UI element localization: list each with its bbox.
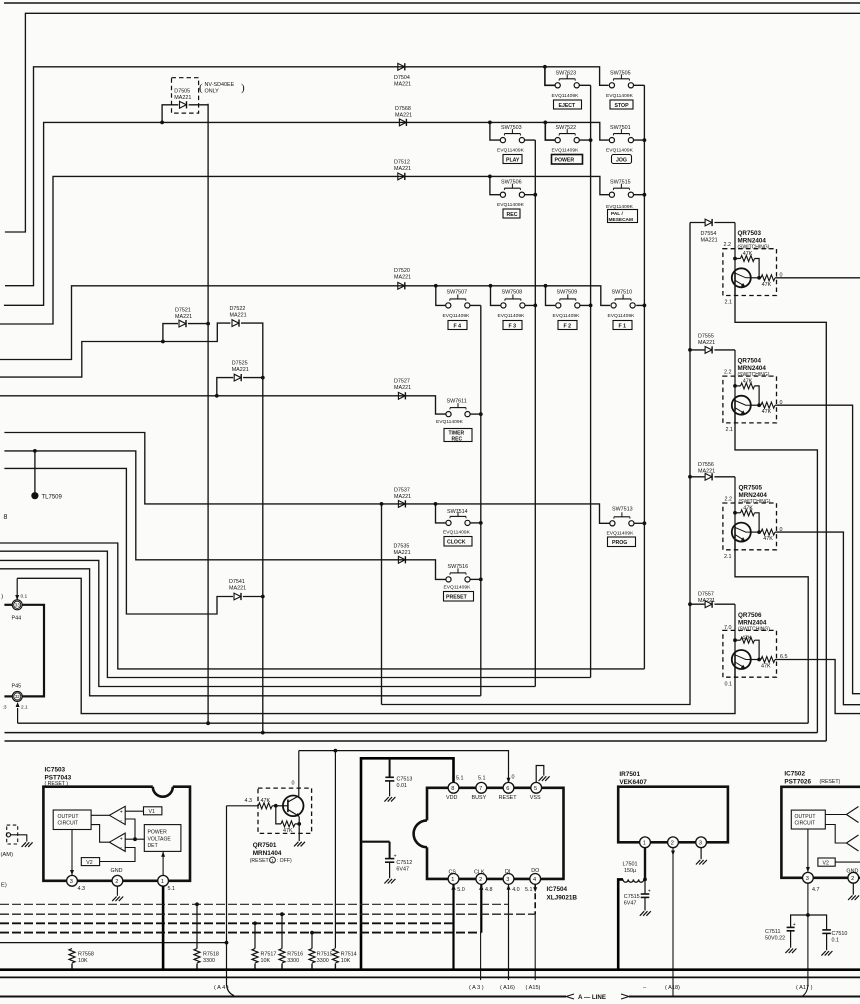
wire D7525 branch <box>217 378 233 396</box>
svg-text:MRN2404: MRN2404 <box>738 619 767 626</box>
switch SW7501 <box>609 129 633 143</box>
jack AM with ground <box>6 825 32 847</box>
switch SW7510 <box>611 294 635 308</box>
diode D7557 <box>705 601 712 608</box>
pin 2 CLK <box>476 874 487 885</box>
IC7504 body <box>414 788 564 879</box>
wire PLAY/POWER/JOG feed <box>4 122 609 305</box>
wire pin1 thick to bottom bus <box>162 886 165 970</box>
svg-text:MA221: MA221 <box>701 238 718 244</box>
svg-text:D7521: D7521 <box>175 308 191 314</box>
svg-text:1: 1 <box>451 877 454 883</box>
wire D7555 line <box>690 349 735 351</box>
svg-text:6: 6 <box>506 786 509 792</box>
svg-text:R7515: R7515 <box>317 952 333 958</box>
box POWER VOLTAGE DET <box>144 825 181 852</box>
svg-text:5.1: 5.1 <box>456 775 464 781</box>
wire CLOCK drop <box>436 504 447 523</box>
pin 5 VSS <box>531 782 542 793</box>
node C2 f3 <box>533 304 537 308</box>
svg-text:+: + <box>120 809 123 815</box>
diode D7504 <box>398 63 405 70</box>
pin 1 of IR7501 <box>640 837 651 848</box>
svg-text:5.1: 5.1 <box>478 775 486 781</box>
IC7502 body <box>781 787 860 878</box>
svg-text:EVQ11409K: EVQ11409K <box>606 147 634 153</box>
wire F3 drop <box>491 286 501 306</box>
node F3 drop <box>489 284 493 288</box>
pin P44 <box>4 578 44 696</box>
wire REC/PAL feed <box>0 176 609 324</box>
transistor QR7506 <box>723 604 777 677</box>
svg-text:4.3: 4.3 <box>245 798 253 804</box>
svg-text:7.0: 7.0 <box>724 625 732 631</box>
svg-text:GND: GND <box>846 868 858 874</box>
svg-text:3300: 3300 <box>287 958 299 964</box>
svg-text:SW7505: SW7505 <box>610 71 631 77</box>
svg-text:MA221: MA221 <box>175 314 192 320</box>
resistor R7517 <box>254 923 256 948</box>
switch SW7508 <box>501 294 525 308</box>
svg-text:3: 3 <box>506 877 509 883</box>
svg-text:4.3: 4.3 <box>78 886 86 892</box>
wire D7521 branch <box>163 324 178 342</box>
svg-text:2.2: 2.2 <box>724 242 732 248</box>
svg-text:REC: REC <box>507 212 518 218</box>
svg-text:2.1: 2.1 <box>21 705 28 711</box>
svg-text:2.2: 2.2 <box>724 370 732 376</box>
switch SW7611 <box>446 403 470 417</box>
svg-text:0: 0 <box>780 273 783 279</box>
svg-text:47K: 47K <box>261 798 271 804</box>
node D7521 left <box>161 340 165 344</box>
wire key line 1 from edge <box>0 543 644 669</box>
switch SW7503 <box>500 129 524 143</box>
svg-text:3300: 3300 <box>203 958 215 964</box>
svg-text:IR7501: IR7501 <box>619 771 640 778</box>
capacitor C7513 <box>384 758 395 801</box>
svg-text:( A 3 ): ( A 3 ) <box>469 985 484 991</box>
wire R7514 column <box>334 751 336 948</box>
node D7505 tap <box>160 121 164 125</box>
ground pin2 IC7502 <box>848 883 859 900</box>
capacitor C7511 <box>785 915 808 953</box>
svg-text:C7512: C7512 <box>396 860 412 866</box>
pin 1 CS <box>448 874 459 885</box>
pin 3 of IC7503 <box>67 875 78 886</box>
svg-text:D7568: D7568 <box>395 106 411 112</box>
svg-text:EVQ11409K: EVQ11409K <box>443 313 471 319</box>
svg-text:PROG: PROG <box>612 540 627 546</box>
svg-text:C7513: C7513 <box>397 777 413 783</box>
wire EJECT drop <box>545 67 555 86</box>
svg-text:4.0: 4.0 <box>512 887 520 893</box>
svg-text:5: 5 <box>534 786 537 792</box>
wire SW7516 right lead <box>470 578 481 580</box>
box V1 <box>144 807 162 815</box>
svg-text:V2: V2 <box>86 860 92 866</box>
ground pin2 <box>112 886 123 901</box>
svg-text:5.1: 5.1 <box>168 886 176 892</box>
svg-text:QR7506: QR7506 <box>738 612 762 619</box>
svg-text:V2: V2 <box>823 861 829 867</box>
pin 8 VDD <box>448 782 459 793</box>
svg-text:MA221: MA221 <box>394 275 411 281</box>
svg-text:EVQ11409K: EVQ11409K <box>497 202 525 208</box>
svg-text:D7555: D7555 <box>698 334 714 340</box>
svg-text:BUSY: BUSY <box>472 795 487 801</box>
svg-text:A — LINE: A — LINE <box>578 994 606 1001</box>
svg-text:QR7503: QR7503 <box>738 230 762 237</box>
svg-text:+: + <box>120 836 123 842</box>
box V2 of IC7502 <box>818 858 835 866</box>
svg-text:32: 32 <box>15 694 20 699</box>
diode D7520 <box>398 282 405 289</box>
svg-text:CIRCUIT: CIRCUIT <box>795 821 816 827</box>
svg-text:47K: 47K <box>743 378 753 384</box>
box V2 <box>81 858 99 866</box>
wire SW7611 right lead <box>470 413 481 415</box>
IC7503 body <box>43 787 190 881</box>
svg-text:SW7515: SW7515 <box>610 180 631 186</box>
wire D7541 net <box>4 468 233 614</box>
wire P44 net to QR7506 emitter <box>17 578 735 713</box>
svg-text:3: 3 <box>699 841 702 847</box>
svg-text:47K: 47K <box>762 409 772 415</box>
pin 3 of IR7501 <box>696 837 707 848</box>
svg-text:-: - <box>120 845 122 851</box>
node C4 pal <box>643 193 647 197</box>
node PLAY drop <box>488 121 492 125</box>
svg-text:2: 2 <box>479 877 482 883</box>
svg-text:D7525: D7525 <box>232 361 248 367</box>
wire QR7506 emitter route <box>734 667 736 714</box>
wire QR7504 emitter route <box>735 412 817 732</box>
svg-text:D7520: D7520 <box>394 268 410 274</box>
svg-text:EVQ11409K: EVQ11409K <box>552 93 580 99</box>
svg-text:4.7: 4.7 <box>812 887 820 893</box>
svg-text:7: 7 <box>479 786 482 792</box>
wire D7505 bypass <box>162 105 208 123</box>
svg-text:SW7611: SW7611 <box>447 399 467 405</box>
pin 1 of IC7503 <box>158 875 169 886</box>
wire bus to QR7503 emitter <box>5 740 827 742</box>
bus thick A-line upper <box>0 968 860 971</box>
svg-text:5.1: 5.1 <box>525 887 533 893</box>
svg-text:47K: 47K <box>283 828 293 834</box>
svg-text:D7557: D7557 <box>698 592 714 598</box>
svg-text:3: 3 <box>70 879 73 885</box>
svg-text:8: 8 <box>451 786 454 792</box>
switch SW7516 <box>446 568 470 582</box>
svg-text:SW7501: SW7501 <box>610 125 631 131</box>
bus dashed row CS <box>0 922 454 924</box>
svg-text:10K: 10K <box>261 958 271 964</box>
svg-text:GND: GND <box>111 868 123 874</box>
switch SW7513 <box>610 512 634 526</box>
svg-text:EVQ11409K: EVQ11409K <box>552 147 580 153</box>
wire QR7504 output route <box>777 405 860 694</box>
diode D7568 <box>399 119 406 126</box>
svg-text:F 2: F 2 <box>564 323 572 329</box>
diode D7525 <box>234 374 241 381</box>
svg-text:EVQ11409K: EVQ11409K <box>606 93 634 99</box>
svg-text:(RESET): (RESET) <box>820 779 841 785</box>
svg-text:MA221: MA221 <box>232 367 249 373</box>
svg-text:F 1: F 1 <box>619 323 627 329</box>
svg-text:2.2: 2.2 <box>725 496 733 502</box>
node F4 drop <box>434 284 438 288</box>
inductor L7501 <box>618 848 645 970</box>
bottom border with A-LINE gap <box>0 996 566 998</box>
svg-text:EVQ11409K: EVQ11409K <box>607 531 635 537</box>
svg-text:(SWITCHING): (SWITCHING) <box>738 372 770 378</box>
svg-text:OUTPUT: OUTPUT <box>58 814 79 820</box>
wire D7522 net from edge <box>0 323 230 377</box>
wire CLOCK feed <box>4 433 609 524</box>
svg-text:MA221: MA221 <box>394 385 411 391</box>
wire switch right leads row1 <box>579 84 644 86</box>
svg-text:+: + <box>648 888 651 894</box>
diode D7556 <box>705 473 712 480</box>
wire DI column <box>507 884 511 980</box>
wire switch right leads row2 <box>525 139 645 141</box>
wire REC drop <box>490 176 500 194</box>
svg-text:D7504: D7504 <box>394 75 410 81</box>
node column 262 on bus <box>261 731 265 735</box>
svg-text:V1: V1 <box>149 809 155 815</box>
box OUTPUT CIRCUIT <box>53 810 91 830</box>
svg-text:EVQ11409K: EVQ11409K <box>443 530 471 536</box>
svg-text:F 3: F 3 <box>509 323 517 329</box>
svg-text:( A16): ( A16) <box>500 985 515 991</box>
svg-text:5.0: 5.0 <box>457 887 465 893</box>
bus line below <box>0 976 860 978</box>
svg-text:SW7506: SW7506 <box>501 180 522 186</box>
node C4 f1 <box>643 304 647 308</box>
svg-text:MA221: MA221 <box>230 313 247 319</box>
wire DI row solid to A4 <box>0 942 227 944</box>
wire TL7509 branch <box>34 451 36 493</box>
svg-text:L7501: L7501 <box>623 862 638 868</box>
svg-text:1: 1 <box>161 879 164 885</box>
pin 3 of IC7502 <box>803 872 814 883</box>
wire column C1 <box>480 305 482 695</box>
wire VSS ground loop <box>536 766 549 783</box>
svg-text::3: :3 <box>3 705 7 711</box>
svg-text:POWER: POWER <box>148 830 168 836</box>
svg-text:EVQ11409K: EVQ11409K <box>608 313 636 319</box>
svg-text:R7558: R7558 <box>78 952 94 958</box>
wire D7541 cathode <box>243 596 263 598</box>
svg-text:8: 8 <box>4 514 8 521</box>
wire key line 2 from edge <box>0 551 591 677</box>
wire PLAY drop <box>490 122 500 140</box>
svg-text:D7541: D7541 <box>229 579 245 585</box>
wire F4 drop <box>436 286 446 306</box>
wire PRESET feed <box>4 451 446 580</box>
resistor R7558 <box>69 949 75 964</box>
wire QR7503 emitter route <box>735 285 826 741</box>
svg-text:EVQ11409K: EVQ11409K <box>497 147 525 153</box>
ground pin3 IR7501 <box>696 848 707 865</box>
svg-text:D7535: D7535 <box>394 544 410 550</box>
svg-text:2.1: 2.1 <box>726 427 734 433</box>
svg-text:MA221: MA221 <box>394 550 411 556</box>
svg-text:TL7509: TL7509 <box>42 495 63 501</box>
svg-text:PLAY: PLAY <box>506 157 520 163</box>
node D7525 right <box>261 376 265 380</box>
svg-text:SW7510: SW7510 <box>612 290 633 296</box>
transistor QR7501 <box>227 751 312 847</box>
svg-text:(RESET: (RESET <box>250 858 270 864</box>
svg-text:MA221: MA221 <box>698 340 715 346</box>
svg-text:SW7503: SW7503 <box>501 125 522 131</box>
svg-text:EVQ11409K: EVQ11409K <box>436 419 464 425</box>
svg-text:6V47: 6V47 <box>396 866 409 872</box>
svg-text:NV-SD40EE: NV-SD40EE <box>205 82 235 88</box>
svg-text:CLOCK: CLOCK <box>447 540 466 546</box>
svg-text:VSS: VSS <box>530 795 541 801</box>
svg-text:JOG: JOG <box>616 157 627 163</box>
svg-text:STOP: STOP <box>615 103 630 109</box>
svg-text:D7537: D7537 <box>394 488 410 494</box>
svg-text:50V0.22: 50V0.22 <box>765 935 785 941</box>
svg-text:RESET: RESET <box>499 795 518 801</box>
node C2 rec <box>533 193 537 197</box>
diode D7537 <box>398 500 405 507</box>
switch SW7507 <box>446 294 470 308</box>
svg-text:D7554: D7554 <box>701 231 717 237</box>
wire POWER drop <box>545 122 555 140</box>
svg-text:DO: DO <box>531 868 539 874</box>
svg-text:OUTPUT: OUTPUT <box>795 814 816 820</box>
bus dashed row CLK <box>0 932 481 934</box>
svg-text:: OFF): : OFF) <box>277 858 292 864</box>
wire QR base bus vertical <box>382 223 691 705</box>
switch SW7522 <box>555 129 579 143</box>
node POWER drop <box>543 121 547 125</box>
svg-text:1: 1 <box>643 841 646 847</box>
wire A4 column from QR7501 base <box>227 806 235 996</box>
resistor R7516 <box>281 914 283 948</box>
svg-text:POWER: POWER <box>555 158 575 164</box>
svg-text:4: 4 <box>533 877 536 883</box>
pin 6 RESET <box>503 782 514 793</box>
svg-text:EVQ11409K: EVQ11409K <box>498 313 526 319</box>
op-amp A2 <box>109 833 125 851</box>
svg-text:QR7501: QR7501 <box>253 842 277 849</box>
box OUTPUT CIRCUIT of IC7502 <box>791 810 825 829</box>
switch SW7515 <box>609 184 633 198</box>
svg-text:F 4: F 4 <box>454 323 462 329</box>
svg-text:D7556: D7556 <box>698 462 714 468</box>
svg-text:0.1: 0.1 <box>725 681 733 687</box>
wire EJECT/STOP feed <box>5 67 609 286</box>
svg-text:C7511: C7511 <box>765 929 780 935</box>
svg-text:2.1: 2.1 <box>725 300 733 306</box>
svg-text:PST7026: PST7026 <box>784 779 811 786</box>
svg-text:R7514: R7514 <box>341 952 357 958</box>
pin P45 <box>4 691 22 723</box>
svg-text:47K: 47K <box>762 282 772 288</box>
svg-text:0.01: 0.01 <box>397 783 408 789</box>
svg-text:33: 33 <box>15 603 20 608</box>
wire VDD thick supply <box>361 758 454 969</box>
svg-text:47K: 47K <box>742 636 752 642</box>
svg-text:47K: 47K <box>763 536 773 542</box>
wire D7521 cathode <box>188 323 208 325</box>
svg-text:D7512: D7512 <box>394 160 410 166</box>
svg-text:3: 3 <box>806 876 809 882</box>
wire matrix vertical 262 <box>262 323 264 732</box>
svg-text:R7516: R7516 <box>287 952 303 958</box>
diode D7554 <box>705 219 712 226</box>
svg-text:2.1: 2.1 <box>724 554 732 560</box>
node C1 timer <box>479 412 483 416</box>
top border line <box>4 2 860 4</box>
node C1 clock <box>479 521 483 525</box>
svg-text:D7505: D7505 <box>174 89 190 95</box>
svg-text:+: + <box>394 853 397 859</box>
switch SW7509 <box>556 294 580 308</box>
switch SW7514 <box>446 512 470 526</box>
svg-text:(SWITCHING): (SWITCHING) <box>739 499 771 505</box>
node CLOCK drop <box>434 502 438 506</box>
svg-text:DET: DET <box>148 843 158 849</box>
svg-text:MA221: MA221 <box>394 166 411 172</box>
svg-text:0.1: 0.1 <box>21 594 28 600</box>
pin 4 DO <box>530 874 541 885</box>
svg-text:( A17 ): ( A17 ) <box>796 985 813 991</box>
svg-text:IC7502: IC7502 <box>784 771 805 778</box>
svg-text:47K: 47K <box>761 664 771 670</box>
svg-text:IC7504: IC7504 <box>547 886 568 893</box>
svg-text:MA221: MA221 <box>174 95 191 101</box>
svg-text:2: 2 <box>851 876 854 882</box>
diode D7522 <box>232 320 239 327</box>
node D7521 right <box>206 322 210 326</box>
switch SW7623 <box>555 74 579 88</box>
svg-text:10K: 10K <box>78 958 88 964</box>
resistor R7518 <box>196 904 198 948</box>
wire IC7502 pin3 to A17 <box>802 883 808 996</box>
diode D7512 <box>398 173 405 180</box>
svg-text:MESECAM: MESECAM <box>609 217 634 223</box>
diode D7535 <box>398 556 405 563</box>
op-amp A1 <box>109 806 125 824</box>
wire column C2 <box>534 140 536 686</box>
svg-text:R7517: R7517 <box>261 952 277 958</box>
svg-text:MA221: MA221 <box>698 469 715 475</box>
svg-text:QR7504: QR7504 <box>738 358 762 365</box>
IR7501 body <box>618 787 728 843</box>
capacitor C7510 <box>808 915 832 956</box>
svg-text:0.1: 0.1 <box>832 937 840 943</box>
svg-text:( RESET ): ( RESET ) <box>45 781 69 787</box>
svg-text:VEK6407: VEK6407 <box>619 779 647 786</box>
svg-text:REC: REC <box>452 436 463 442</box>
wire SW7513 right lead <box>634 522 644 524</box>
wires inside IC7502 <box>806 815 860 873</box>
pin 3 DI <box>503 874 514 885</box>
capacitor C7515 <box>640 879 651 915</box>
wire bus to QR7504 emitter <box>5 732 818 734</box>
wire column C4 <box>643 85 645 669</box>
wire F2 drop <box>546 286 556 306</box>
wire top bus B: stub left to up to y13 across <box>5 13 860 232</box>
svg-text:SW7522: SW7522 <box>556 125 577 131</box>
